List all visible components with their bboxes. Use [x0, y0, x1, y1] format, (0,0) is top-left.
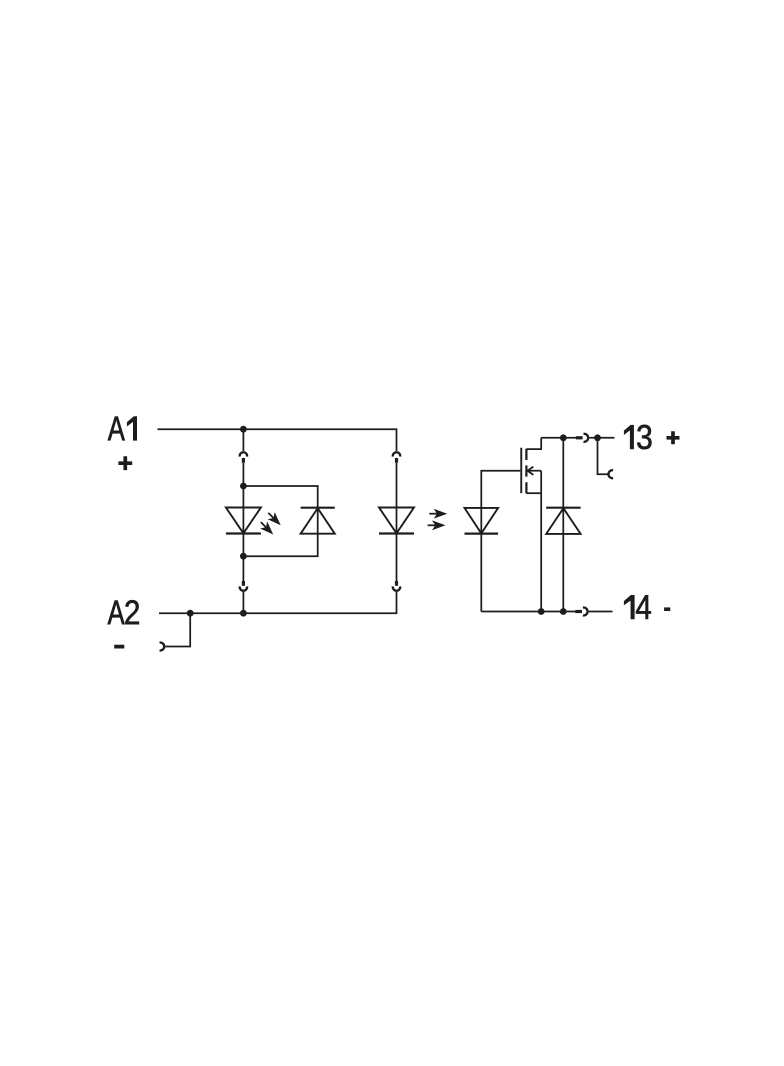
node A2/indicator branch junction: [240, 610, 247, 617]
wire A2 auxiliary stub: [165, 613, 190, 646]
connector pin (13 rail): [576, 436, 583, 439]
optocoupler LED D3 triangle: [379, 508, 414, 534]
MOSFET Q1 gate bar: [520, 448, 522, 494]
node A2/stub junction: [187, 610, 194, 617]
socket at A2 auxiliary stub: [160, 643, 165, 651]
connector socket (indicator branch top): [240, 452, 247, 456]
polarity - at 14: [664, 607, 670, 611]
wire protection diode top link: [243, 486, 317, 508]
optocoupler LED D3 cathode bar: [379, 532, 414, 534]
node indicator/protection diode top: [240, 483, 247, 490]
wire output 13 rail: [541, 437, 577, 439]
wire opto LED branch bottom to A2 rail: [159, 592, 397, 613]
connector socket (opto LED branch bottom): [393, 586, 400, 590]
connector pin (14 rail): [575, 610, 582, 613]
protection diode D2 cathode bar: [301, 507, 335, 509]
wire indicator branch top: [242, 429, 244, 451]
light coupling arrow 2: [428, 520, 446, 530]
node 13/stub junction: [594, 434, 601, 441]
polarity + at 13: [667, 431, 680, 444]
wire 13 auxiliary stub: [598, 438, 609, 474]
wire 14 rail to terminal: [589, 611, 613, 613]
node 14/output diode junction: [560, 608, 567, 615]
connector socket (indicator branch bottom): [240, 586, 247, 590]
terminal label A1: [108, 417, 137, 441]
output diode D5 cathode bar: [546, 507, 580, 509]
wire photodiode branch and gate link: [481, 471, 520, 612]
MOSFET Q1 body stub: [527, 470, 541, 472]
photodiode D4 cathode bar: [465, 532, 499, 534]
wire output 14 rail: [481, 611, 576, 613]
terminal label 13: [624, 425, 651, 449]
connector pin (opto LED branch top): [395, 458, 398, 463]
LED D1 light arrow 2: [257, 519, 276, 538]
socket at 13 auxiliary stub: [608, 470, 613, 478]
LED D1 cathode bar: [226, 532, 261, 534]
connector pin (indicator branch top): [242, 458, 245, 463]
MOSFET Q1 drain stub: [526, 438, 541, 449]
node 14/MOSFET source junction: [538, 608, 545, 615]
polarity + at A1: [118, 456, 132, 470]
MOSFET Q1 body arrow: [528, 467, 534, 475]
connector pin (opto LED branch bottom): [395, 581, 398, 586]
wire 13 rail to terminal: [589, 437, 614, 439]
MOSFET Q1 channel dashes: [525, 449, 527, 494]
connector socket (13 rail): [584, 434, 589, 442]
wire indicator branch middle: [242, 463, 244, 581]
wire A1 rail to optocoupler LED branch: [158, 429, 397, 451]
protection diode D2 triangle: [301, 508, 335, 534]
terminal label A2: [108, 600, 139, 624]
wire indicator branch bottom: [242, 592, 244, 613]
connector socket (opto LED branch top): [393, 452, 400, 456]
light coupling arrow 1: [429, 509, 447, 519]
MOSFET Q1 source stub: [526, 492, 541, 494]
LED D1 light arrow 1: [265, 509, 284, 528]
polarity - at A2: [114, 645, 124, 649]
connector socket (14 rail): [583, 608, 588, 616]
node indicator/protection diode bottom: [240, 553, 247, 560]
LED D1 triangle: [226, 508, 261, 534]
connector pin (indicator branch bottom): [242, 581, 245, 586]
photodiode D4 triangle: [465, 508, 499, 534]
node 13/output diode junction: [560, 434, 567, 441]
output diode D5 triangle: [546, 508, 580, 534]
node A1/indicator branch junction: [240, 426, 247, 433]
wire MOSFET source/body down: [540, 471, 542, 612]
wire opto LED branch middle: [396, 463, 398, 581]
wire output diode branch: [562, 438, 564, 612]
terminal label 14: [624, 595, 651, 619]
wire protection diode bottom link: [243, 508, 317, 557]
